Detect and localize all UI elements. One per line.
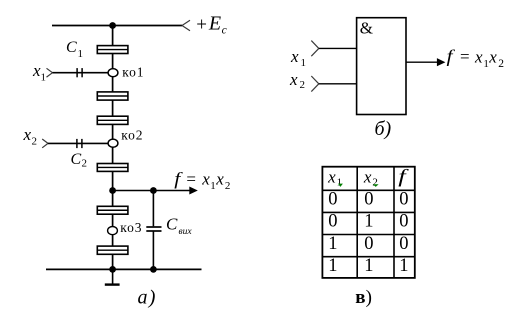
svg-text:2: 2 <box>372 177 378 189</box>
terminal chevron x2 <box>42 139 48 148</box>
svg-text:1: 1 <box>364 256 373 276</box>
svg-text:E: E <box>208 13 221 35</box>
svg-text:&: & <box>360 19 373 38</box>
svg-text:0: 0 <box>364 190 373 210</box>
svg-text:0: 0 <box>399 190 408 210</box>
svg-text:x: x <box>289 70 298 89</box>
label f = x1x2 output b <box>447 47 505 70</box>
node ko2 circle <box>108 139 118 147</box>
svg-text:x: x <box>474 47 483 66</box>
terminal chevron x1 b <box>311 41 319 57</box>
wire main vertical column <box>112 26 114 270</box>
resistor bar symbol 6 <box>97 246 128 254</box>
svg-text:0: 0 <box>399 234 408 254</box>
wire Cout vertical <box>152 191 154 227</box>
wire Cout to rail <box>152 232 154 270</box>
ground <box>105 269 120 284</box>
svg-text:вих: вих <box>179 227 193 237</box>
resistor bar symbol 2 <box>97 92 128 100</box>
svg-text:2: 2 <box>300 79 306 91</box>
terminal chevron +Ec <box>182 20 190 30</box>
table header x1 <box>327 167 342 188</box>
svg-text:x: x <box>290 47 299 66</box>
svg-text:б): б) <box>375 118 392 140</box>
svg-text:ко1: ко1 <box>122 65 144 80</box>
resistor bar symbol 3 <box>97 116 128 124</box>
svg-text:1: 1 <box>41 72 47 84</box>
label C1 <box>66 39 83 60</box>
wire gate output <box>406 61 438 63</box>
svg-text:x: x <box>23 125 32 144</box>
svg-text:1: 1 <box>399 256 408 276</box>
wire x1 to gate <box>319 47 357 49</box>
table row 4 <box>328 256 408 276</box>
wire x2 input <box>48 142 108 144</box>
label x1 input a <box>32 61 46 84</box>
truth table frame <box>322 166 414 278</box>
label +Ec <box>196 13 227 37</box>
table row 1 <box>328 190 408 210</box>
label x2 input a <box>23 125 38 148</box>
green mark under x1 <box>338 184 343 187</box>
svg-text:x: x <box>215 170 224 189</box>
table header x2 <box>363 167 378 188</box>
node junction rail-right <box>150 266 157 273</box>
capacitor Cout plates <box>146 227 161 231</box>
terminal chevron x1 <box>47 68 53 77</box>
wire output f <box>113 190 191 192</box>
arrowhead gate output <box>437 58 446 66</box>
svg-text:x: x <box>363 167 372 186</box>
label f = x1x2 output a <box>174 169 230 192</box>
terminal chevron x2 b <box>311 76 319 92</box>
svg-text:в): в) <box>355 287 372 308</box>
resistor bar symbol 1 <box>97 46 128 54</box>
table row 2 <box>328 212 408 232</box>
arrowhead output f <box>189 187 198 195</box>
svg-text:0: 0 <box>399 212 408 232</box>
node ko3 circle <box>108 227 118 235</box>
svg-text:=: = <box>186 170 196 189</box>
svg-text:x: x <box>327 167 336 186</box>
svg-text:2: 2 <box>82 158 88 170</box>
svg-text:1: 1 <box>364 212 373 232</box>
svg-text:ко2: ко2 <box>121 127 143 142</box>
node ko1 circle <box>108 69 118 77</box>
node junction main-output <box>109 187 116 194</box>
capacitor C2 plates <box>77 139 82 148</box>
svg-text:1: 1 <box>337 177 343 189</box>
svg-text:а): а) <box>138 286 157 308</box>
svg-text:1: 1 <box>78 48 84 60</box>
wire x2 to gate <box>319 83 357 85</box>
svg-text:0: 0 <box>328 212 337 232</box>
wire bottom rail <box>46 268 202 270</box>
svg-text:ко3: ко3 <box>120 220 142 235</box>
label C2 <box>71 151 88 170</box>
capacitor C1 plates <box>77 68 82 77</box>
svg-text:0: 0 <box>328 190 337 210</box>
op-amp gate box <box>357 18 406 115</box>
svg-text:c: c <box>222 25 227 37</box>
svg-text:C: C <box>66 39 77 56</box>
svg-text:1: 1 <box>483 58 489 70</box>
svg-text:1: 1 <box>301 57 307 69</box>
svg-text:1: 1 <box>328 234 337 254</box>
svg-text:+: + <box>196 15 207 36</box>
svg-text:2: 2 <box>225 180 231 192</box>
resistor bar symbol 4 <box>97 164 128 172</box>
svg-text:2: 2 <box>498 58 504 70</box>
resistor bar symbol 5 <box>97 206 128 214</box>
wire x1 input <box>53 72 109 74</box>
label x1 input b <box>290 47 306 69</box>
svg-text:2: 2 <box>32 136 38 148</box>
node junction Cout tap <box>150 187 157 194</box>
node top junction <box>109 22 116 29</box>
wire top supply rail <box>52 25 182 27</box>
label x2 input b <box>289 70 305 91</box>
table row 3 <box>328 234 408 254</box>
svg-text:C: C <box>166 215 178 234</box>
svg-text:1: 1 <box>328 256 337 276</box>
svg-text:x: x <box>488 47 497 66</box>
svg-text:C: C <box>71 151 82 168</box>
svg-text:0: 0 <box>364 234 373 254</box>
label Cvih <box>166 215 192 237</box>
node junction rail-left <box>109 266 116 273</box>
svg-text:1: 1 <box>210 180 216 192</box>
svg-text:=: = <box>460 47 470 66</box>
green mark under x2 <box>373 184 379 187</box>
svg-text:x: x <box>201 170 210 189</box>
